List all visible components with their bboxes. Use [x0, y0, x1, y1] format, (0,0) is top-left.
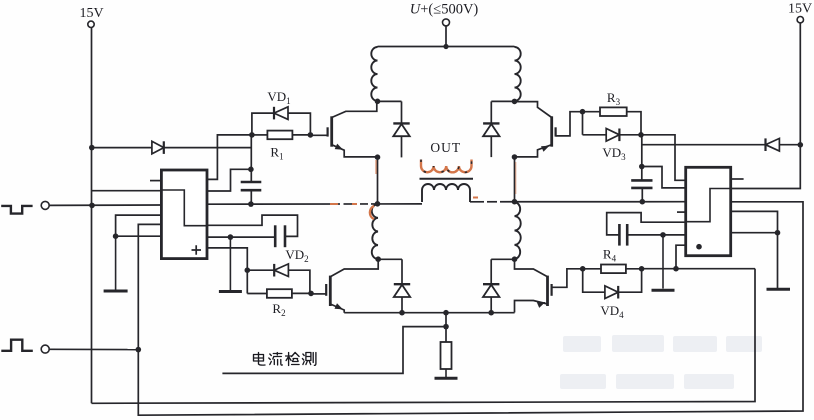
capacitor C1	[241, 181, 262, 184]
diode VD-TR (antiparallel, upper-right leg)	[490, 101, 492, 157]
wire VD2 loop	[247, 270, 310, 293]
inductor L2 (upper right choke)	[515, 47, 521, 101]
node VD-BL anode junction	[399, 310, 405, 316]
wire collector to diode VD-BL	[378, 258, 402, 260]
diode VD2	[274, 264, 288, 277]
node mid bus right-leg junction	[512, 199, 518, 205]
node R4 left	[580, 266, 586, 272]
wire node-A capacitor drop	[250, 135, 252, 182]
diode D6 (15V right feed)	[766, 138, 780, 151]
wire VD4 loop	[583, 269, 642, 292]
node 15V right terminal	[797, 17, 803, 23]
node loop junction	[673, 266, 679, 272]
node U+ supply terminal	[443, 19, 450, 26]
node input terminal A	[41, 201, 49, 209]
wire pin stub right-mid	[677, 211, 686, 213]
labels group	[79, 2, 812, 320]
wire mid bus right	[470, 201, 686, 203]
wire 15V right rail	[731, 23, 801, 189]
node Q2 emitter junction	[512, 154, 518, 160]
wire R3 leads	[583, 111, 601, 113]
diode D5 (15V left feed)	[152, 141, 164, 154]
wire cap C1 tap to driver	[207, 169, 251, 191]
node input B junction	[136, 347, 142, 353]
waveform symbol negative pulse	[1, 206, 32, 214]
diode VD1	[274, 107, 288, 120]
node C2 ground tap	[228, 234, 234, 240]
transistor Q4 (lower-right IGBT)	[546, 276, 549, 306]
node R1 left	[249, 132, 255, 138]
op-amp U2 (right gate driver IC)	[686, 167, 731, 255]
node top-left collector junction	[375, 99, 381, 105]
node bottom-left collector junction	[375, 256, 381, 262]
node cap C3 top	[639, 164, 645, 170]
node mid bus left-leg junction	[375, 201, 381, 207]
transistor Q3 (lower-left IGBT)	[329, 276, 332, 306]
resistor R2	[267, 289, 292, 298]
wire R1 leads	[252, 134, 268, 136]
resistor R4	[601, 265, 626, 274]
node VD2 left	[245, 267, 251, 273]
node current-sense tap	[443, 324, 449, 330]
wire driver pin to loop	[676, 245, 686, 269]
capacitor C2	[274, 225, 277, 247]
node Q1 emitter junction	[375, 154, 381, 160]
waveform symbol positive pulse	[1, 340, 33, 351]
diode VD3	[606, 129, 619, 142]
node R4 right	[639, 266, 645, 272]
op-amp U1 (left gate driver IC)	[161, 170, 207, 259]
inductor T1 primary	[422, 184, 470, 202]
node right ground tap	[775, 230, 781, 236]
wire collector to diode VD-TL	[378, 100, 402, 102]
wire emitter node to mid bus	[377, 157, 379, 203]
wire VD3 node to driver	[641, 135, 686, 181]
diode VD-BL (antiparallel, lower-left leg)	[401, 259, 403, 312]
wire C2 jog to driver internal	[207, 215, 298, 236]
node R3 left	[580, 109, 586, 115]
ground driver left B	[229, 237, 231, 290]
wire driver pin to C4	[627, 234, 686, 236]
wire 15V right diode line	[642, 144, 801, 146]
wire VD3 line	[582, 112, 584, 135]
wire emitter node to mid bus right	[514, 157, 516, 202]
transistor Q2 (upper-right IGBT)	[550, 116, 553, 146]
resistor R5 (current sense)	[441, 342, 452, 369]
wire inner feedback loop	[92, 269, 756, 404]
wire U+ bus	[378, 46, 515, 48]
resistor R1	[267, 131, 292, 140]
wire emitter bus	[344, 312, 514, 314]
svg-text:15V: 15V	[79, 6, 103, 21]
svg-text:U+(≤500V): U+(≤500V)	[410, 2, 479, 18]
node U+ bus junction	[443, 44, 448, 49]
resistor R3	[600, 107, 627, 116]
wire C4 jog to driver internal	[607, 213, 686, 235]
node C4 ground tap	[660, 232, 666, 238]
inductor L1 (upper left choke)	[371, 47, 377, 101]
wire driver pin to VD2/R2	[207, 248, 247, 294]
wire Q4 gate lead	[552, 269, 583, 288]
node R1 right	[308, 132, 314, 138]
wire input B lead	[49, 348, 138, 350]
node driver ground node A	[113, 233, 119, 239]
node top-right collector junction	[512, 99, 518, 105]
node input A rail junction	[89, 203, 95, 209]
wire Q3 gate lead	[311, 293, 326, 295]
capacitor C3	[631, 179, 652, 182]
node sense junction	[443, 310, 449, 316]
wire R4 leads	[583, 268, 601, 270]
wire driver pin to C2	[207, 236, 275, 238]
wire T1 core separator	[420, 178, 474, 180]
wire sense drop	[445, 313, 447, 342]
node 15V left terminal	[88, 21, 94, 27]
wire driver pin U-loop	[116, 215, 162, 236]
inductor L4 (lower right choke)	[515, 202, 521, 259]
node input terminal B	[41, 345, 49, 353]
wire current-detect branch	[222, 327, 446, 374]
node 15V-diode branch	[89, 145, 95, 151]
wire accent marks	[330, 160, 516, 219]
ground driver left A	[115, 236, 117, 289]
wire R2 leads	[247, 293, 267, 295]
wire pin stub left-upper	[150, 180, 161, 182]
wire collector to diode VD-BR	[491, 258, 514, 260]
node cap C3 bottom	[640, 199, 646, 205]
wire collector to diode VD-TR	[491, 100, 514, 102]
transistor Q1 (upper-left IGBT)	[330, 116, 333, 146]
wire 15V pin to driver	[92, 190, 162, 192]
wire bus scan gaps	[340, 202, 500, 204]
node VD-BR anode junction	[488, 310, 494, 316]
diode VD-BR (antiparallel, lower-right leg)	[490, 259, 492, 312]
diode VD4	[605, 286, 618, 299]
wire mid bus left	[207, 203, 422, 205]
node bottom-right collector junction	[512, 256, 518, 262]
node R2 right	[308, 291, 314, 297]
wire VD1 loop	[252, 113, 311, 135]
node VD3 right	[638, 132, 644, 138]
inductor L3 (lower left choke)	[372, 204, 378, 259]
capacitor C4	[618, 224, 621, 246]
watermark	[560, 335, 762, 389]
wire Q2 gate lead	[556, 112, 583, 136]
wire 15V left rail	[91, 28, 93, 404]
wire 15V diode line	[92, 147, 252, 149]
svg-text:OUT: OUT	[430, 140, 461, 155]
node 15V-right diode branch	[798, 142, 804, 148]
ground driver right B	[767, 288, 791, 291]
ground driver right A	[662, 235, 664, 289]
ground sense resistor	[445, 369, 447, 378]
node cap C1 bottom	[248, 201, 254, 207]
wire node-A to driver pin	[207, 135, 252, 180]
node cap C1 top	[248, 167, 254, 173]
label current-detect (电流检测)	[254, 353, 316, 366]
wire cap C3 tap to driver	[642, 167, 686, 188]
inductor T1 secondary (OUT winding)	[421, 160, 472, 173]
svg-text:15V: 15V	[788, 2, 812, 17]
wire input A to driver	[49, 204, 161, 206]
wire input B riser and outer loop	[138, 202, 803, 415]
wire driver pin mid-right	[731, 232, 778, 234]
wire R3-node capacitor drop	[641, 135, 643, 181]
wire Q1 gate lead	[310, 134, 327, 136]
wire driver pin to right ground	[731, 211, 778, 288]
wire pin stub right-upper	[731, 178, 744, 180]
diode VD-TL (antiparallel, upper-left leg)	[401, 101, 403, 157]
wire R4 node to loop	[642, 268, 755, 270]
